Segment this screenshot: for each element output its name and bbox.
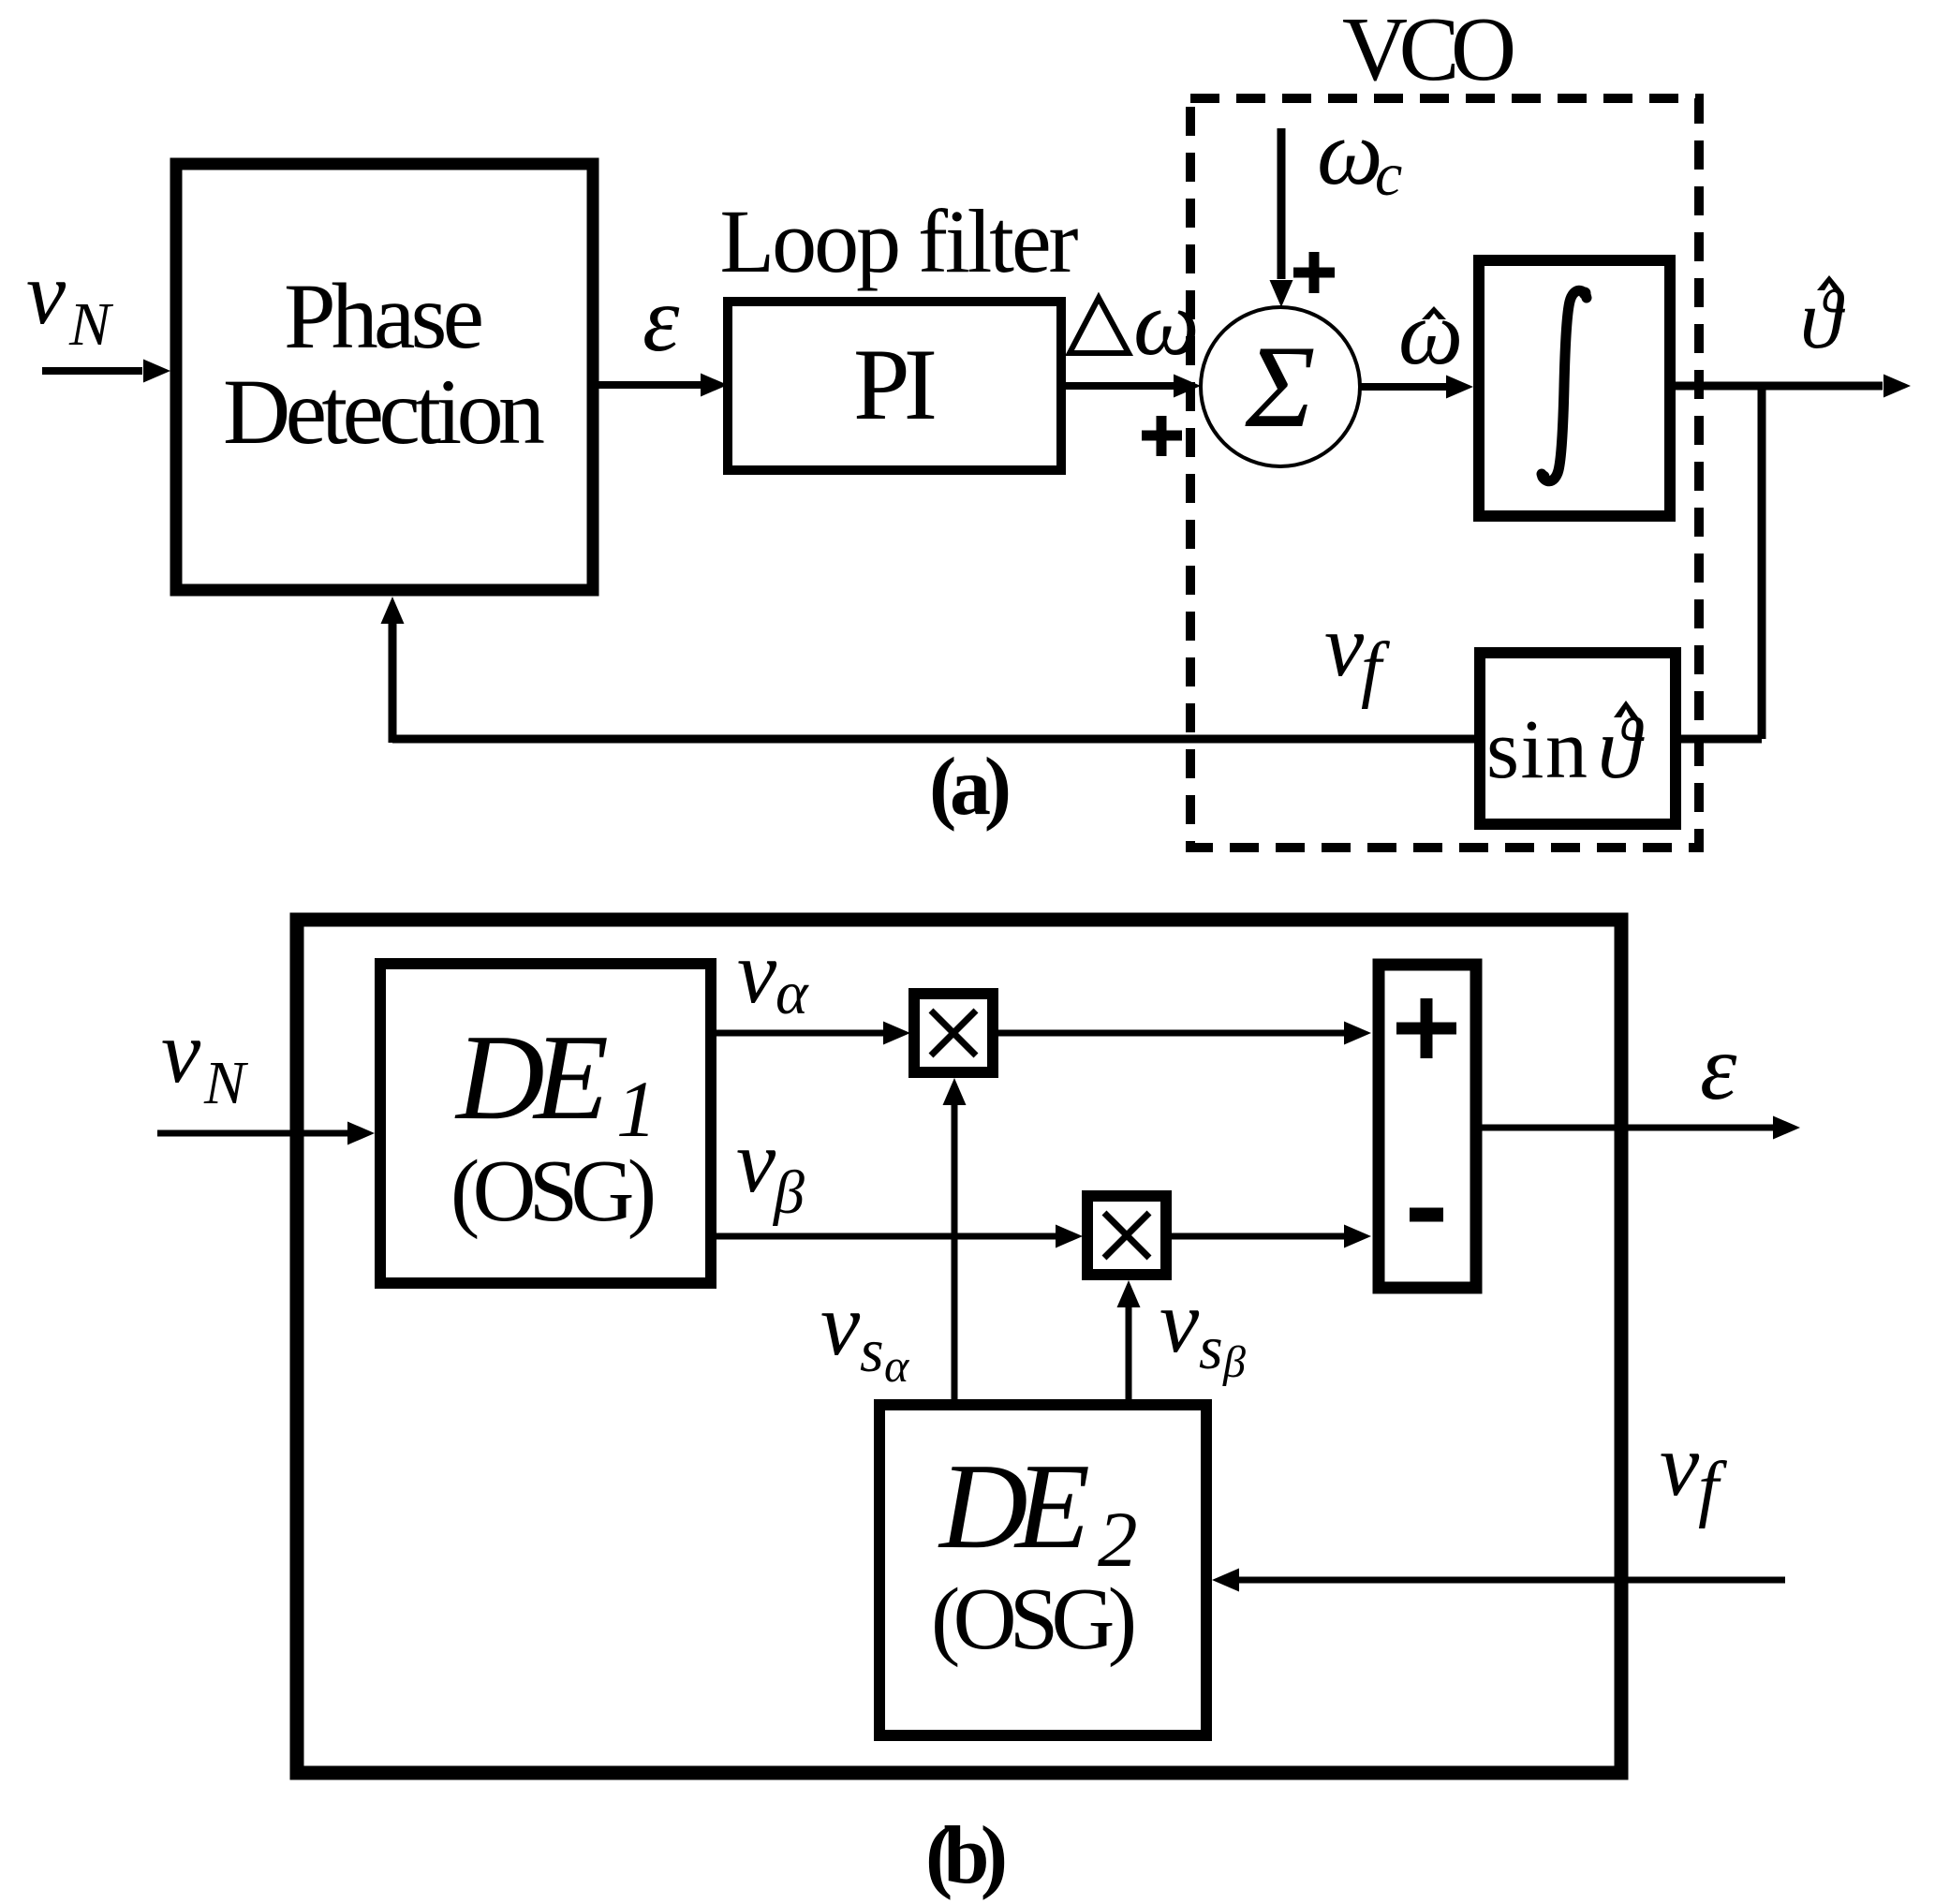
node vN input label <box>26 244 114 359</box>
node omega_c label <box>1317 100 1402 209</box>
block sin theta-hat <box>1480 653 1676 824</box>
wire epsilon output <box>1476 1116 1800 1140</box>
multiplier 2 <box>1087 1196 1166 1275</box>
node v_f label (a) <box>1324 596 1391 710</box>
node v_f label (b) <box>1660 1415 1728 1529</box>
outer block phase detection detail <box>297 920 1621 1773</box>
svg-text:(a): (a) <box>929 742 1012 833</box>
svg-text:PI: PI <box>853 328 938 441</box>
svg-text:β: β <box>1222 1337 1246 1387</box>
wire v_s_beta from DE2 up to multiplier 2 <box>1117 1280 1141 1402</box>
svg-text:v: v <box>737 922 777 1022</box>
node v_s_beta label <box>1160 1272 1246 1387</box>
wire Phase Detection to PI <box>593 374 728 397</box>
block Phase Detection <box>176 164 593 590</box>
svg-text:α: α <box>775 959 809 1027</box>
dashed VCO box <box>1190 98 1699 848</box>
svg-text:s: s <box>1199 1314 1223 1382</box>
svg-text:v: v <box>26 244 66 343</box>
svg-text:α: α <box>884 1339 910 1392</box>
svg-text:Σ: Σ <box>1245 322 1316 452</box>
plus sign at summer top input <box>1293 252 1335 293</box>
svg-text:c: c <box>1375 140 1402 209</box>
svg-text:v: v <box>1160 1272 1200 1371</box>
svg-text:DE: DE <box>454 1010 609 1145</box>
node vN label (b) <box>161 1002 249 1117</box>
node theta-hat label <box>1800 273 1846 366</box>
node v_beta label <box>736 1112 805 1227</box>
svg-text:Phase: Phase <box>284 264 484 368</box>
block PI loop filter <box>728 302 1061 470</box>
svg-text:v: v <box>736 1112 776 1211</box>
wire multiplier 2 to summer minus <box>1166 1225 1371 1248</box>
svg-text:sin: sin <box>1486 703 1588 796</box>
wire vN input arrow into Phase Detection <box>42 360 170 383</box>
wire v_s_alpha from DE2 up to multiplier 1 <box>943 1078 967 1402</box>
svg-text:Detection: Detection <box>223 360 545 464</box>
wire vN input into DE1 <box>157 1122 375 1145</box>
wire feedback branch down from output <box>1758 382 1766 739</box>
node omega-hat label <box>1398 283 1463 384</box>
block DE1 (OSG) <box>380 964 711 1283</box>
svg-text:(b): (b) <box>925 1810 1008 1901</box>
node v_s_alpha label <box>820 1275 910 1392</box>
svg-text:DE: DE <box>938 1439 1090 1574</box>
summer plus-minus block <box>1379 965 1476 1288</box>
svg-text:(OSG): (OSG) <box>451 1143 657 1240</box>
svg-text:(OSG): (OSG) <box>931 1571 1137 1668</box>
summer circle Sigma <box>1201 307 1360 466</box>
svg-text:N: N <box>203 1049 249 1117</box>
svg-text:β: β <box>772 1159 805 1227</box>
wire integrator output theta-hat <box>1670 375 1911 398</box>
wire v_f into DE2 <box>1212 1569 1785 1592</box>
wire v_alpha from DE1 to multiplier 1 <box>711 1022 910 1045</box>
wire branch into sin box right side <box>1676 735 1762 744</box>
svg-text:v: v <box>161 1002 201 1101</box>
node v_alpha label <box>737 922 809 1027</box>
svg-text:ε: ε <box>643 267 680 371</box>
svg-text:ε: ε <box>1700 1015 1737 1119</box>
svg-text:v: v <box>820 1275 861 1374</box>
wire multiplier 1 to summer plus <box>993 1022 1371 1045</box>
svg-text:Loop filter: Loop filter <box>720 191 1079 291</box>
wire omega_c arrow into summer top <box>1270 128 1293 307</box>
wire feedback from sin box to phase detection <box>381 597 1481 743</box>
plus sign at summer left input <box>1142 416 1182 456</box>
svg-text:N: N <box>68 290 114 359</box>
block DE2 (OSG) <box>879 1405 1206 1735</box>
svg-text:VCO: VCO <box>1342 0 1516 99</box>
svg-text:1: 1 <box>616 1064 657 1154</box>
wire v_beta from DE1 to multiplier 2 <box>711 1225 1083 1248</box>
svg-text:v: v <box>1660 1415 1700 1514</box>
wire summer to integrator <box>1360 376 1473 399</box>
svg-text:ω: ω <box>1398 283 1463 384</box>
node delta-omega label <box>1070 271 1200 375</box>
svg-text:s: s <box>860 1317 884 1385</box>
multiplier 1 <box>914 994 993 1072</box>
svg-text:ω: ω <box>1317 100 1383 204</box>
wire PI to summer <box>1061 375 1201 398</box>
svg-text:v: v <box>1324 596 1365 695</box>
block integrator <box>1479 260 1670 516</box>
